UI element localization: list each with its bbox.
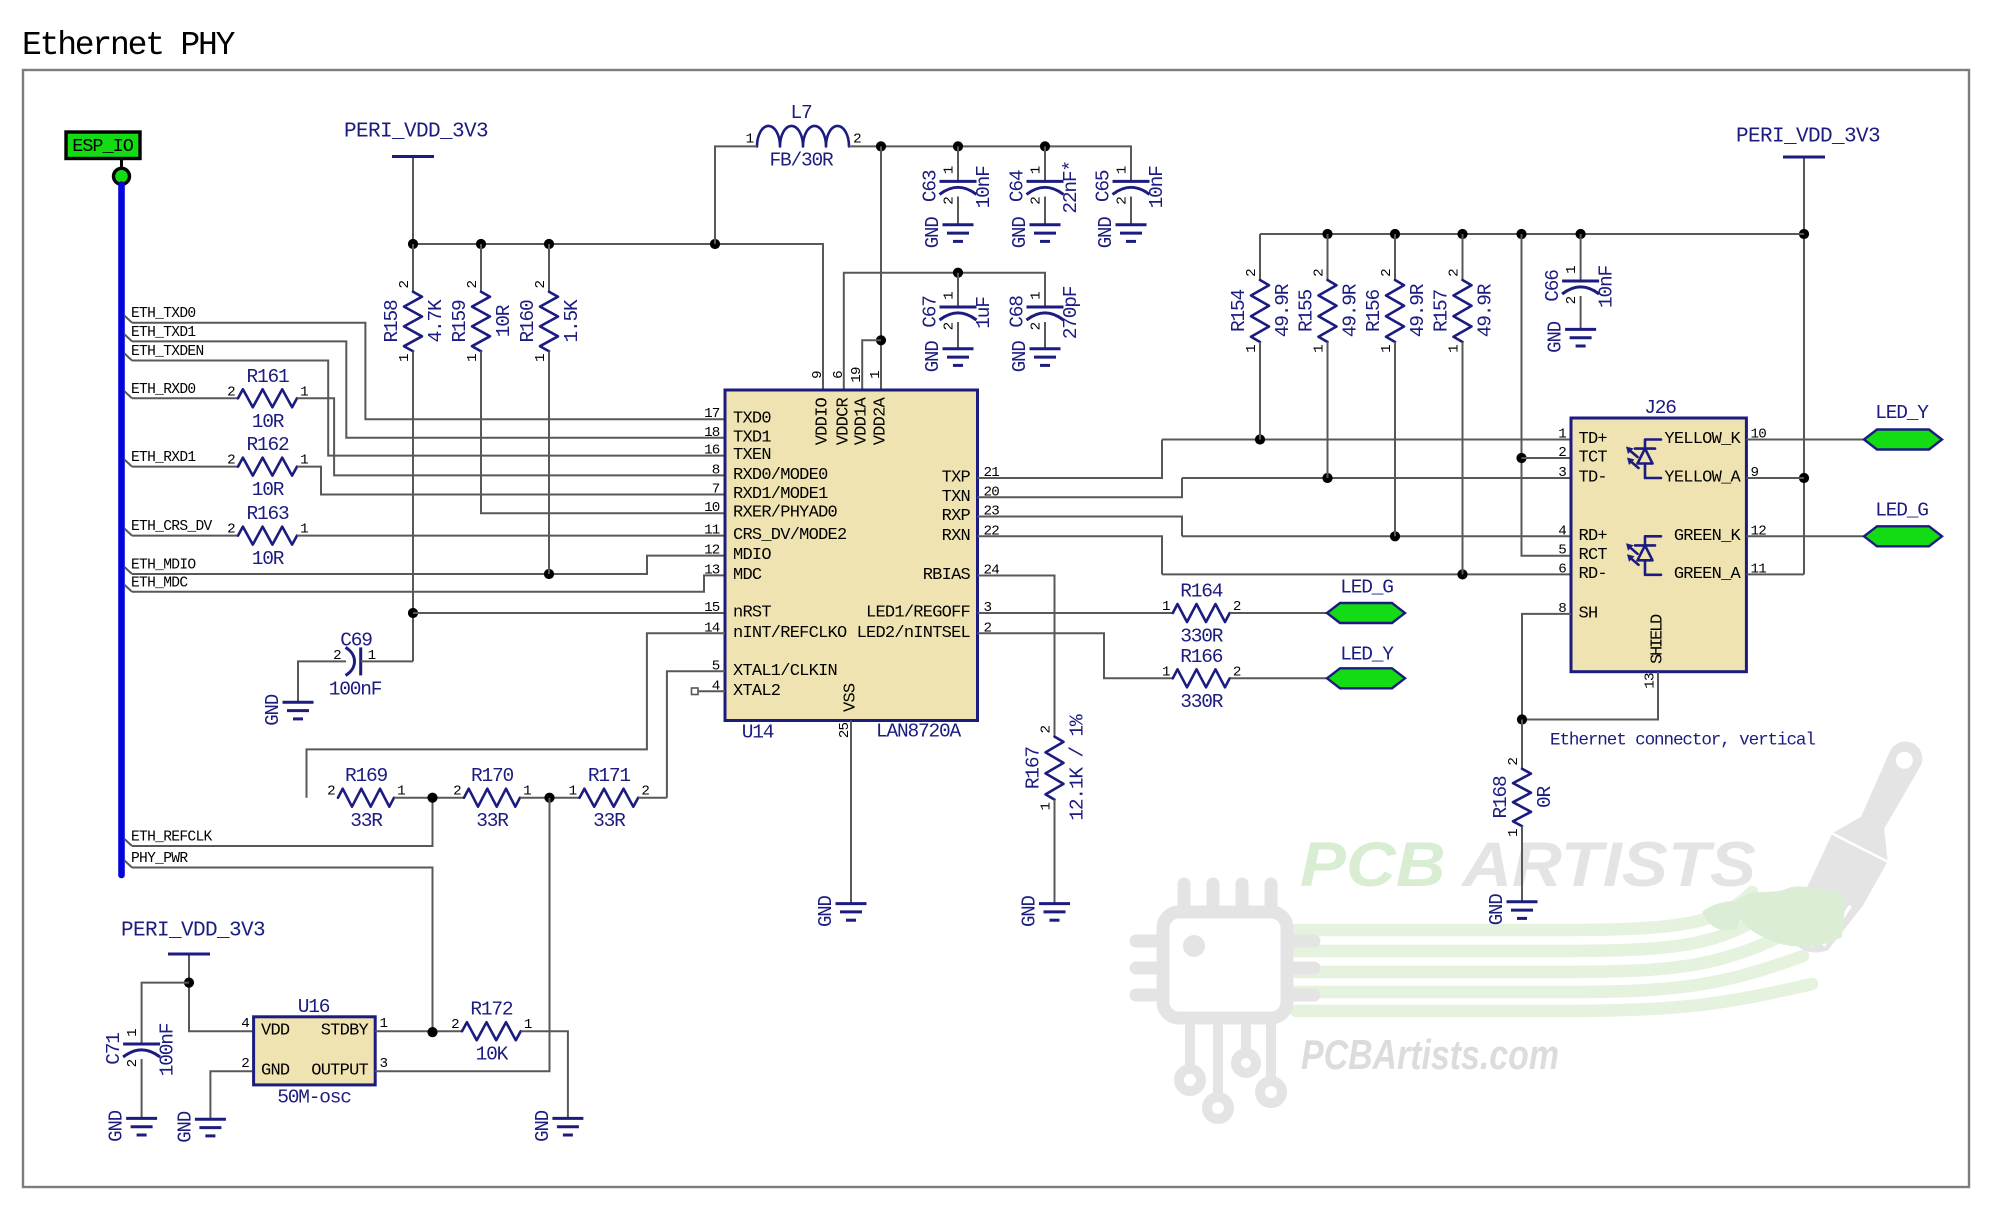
resistor R171 (33R)	[569, 765, 650, 832]
net label ETH_MDIO	[125, 558, 197, 575]
port ESP_IO	[66, 132, 140, 184]
ground	[1545, 321, 1597, 353]
svg-text:10nF: 10nF	[1146, 166, 1168, 209]
wire ETH_TXDEN	[132, 361, 725, 456]
wire LED2 wire	[978, 633, 1173, 678]
svg-text:ETH_RXD0: ETH_RXD0	[131, 382, 195, 398]
net label ETH_REFCLK	[125, 830, 213, 847]
net flag LED_Y	[1327, 644, 1405, 689]
svg-text:LED2/nINTSEL: LED2/nINTSEL	[857, 624, 971, 643]
svg-text:C65: C65	[1093, 170, 1115, 202]
resistor R158 (4.7K)	[381, 281, 447, 363]
net flag LED_G	[1864, 500, 1942, 547]
svg-text:10R: 10R	[252, 479, 285, 501]
junction at 1462.5,234	[1457, 229, 1467, 239]
svg-text:15: 15	[704, 600, 720, 616]
svg-text:RCT: RCT	[1579, 546, 1608, 565]
svg-text:1: 1	[125, 1029, 141, 1037]
svg-text:ETH_TXDEN: ETH_TXDEN	[131, 344, 204, 360]
svg-text:PHY_PWR: PHY_PWR	[131, 851, 188, 867]
wire TD- row	[1182, 477, 1571, 479]
svg-text:1: 1	[465, 354, 481, 362]
svg-text:1: 1	[942, 166, 958, 174]
svg-text:1uF: 1uF	[973, 297, 995, 329]
svg-text:7: 7	[712, 482, 720, 498]
svg-text:GND: GND	[106, 1110, 128, 1142]
LED yellow inside J26	[1626, 440, 1661, 479]
net label ETH_RXD1	[125, 450, 197, 467]
svg-text:17: 17	[704, 406, 720, 422]
svg-text:LED_Y: LED_Y	[1340, 644, 1394, 666]
svg-text:RBIAS: RBIAS	[923, 566, 971, 585]
svg-text:GREEN_A: GREEN_A	[1674, 565, 1742, 584]
power symbol PERI_VDD_3V3	[121, 920, 265, 955]
junction at 1327.5,478	[1322, 473, 1332, 483]
svg-text:2: 2	[1564, 296, 1580, 304]
wire 3V3 bus	[413, 244, 823, 390]
resistor R161 (10R)	[227, 366, 308, 433]
svg-text:ETH_MDIO: ETH_MDIO	[131, 558, 196, 574]
wire ETH_RXD0 b	[297, 398, 725, 475]
junction at 189,982.6	[184, 978, 194, 988]
wire R156 top	[1394, 234, 1396, 280]
svg-text:1: 1	[1379, 345, 1395, 353]
resistor R162 (10R)	[227, 434, 308, 501]
capacitor C65 (10nF)	[1093, 166, 1169, 209]
svg-text:J26: J26	[1644, 397, 1676, 419]
wire R155 bottom	[1327, 342, 1329, 478]
resistor R170 (33R)	[453, 765, 531, 832]
svg-text:RXD0/MODE0: RXD0/MODE0	[733, 466, 828, 485]
wire R164 to flag	[1230, 612, 1327, 614]
svg-text:2: 2	[465, 281, 481, 289]
svg-text:OUTPUT: OUTPUT	[311, 1062, 368, 1081]
svg-text:1: 1	[1564, 266, 1580, 274]
svg-text:50M-osc: 50M-osc	[277, 1087, 351, 1109]
svg-text:R154: R154	[1228, 290, 1250, 333]
resistor R154 (49.9R)	[1228, 269, 1294, 353]
svg-text:C66: C66	[1542, 270, 1564, 302]
svg-text:LED_G: LED_G	[1340, 577, 1393, 599]
svg-text:R155: R155	[1296, 290, 1318, 333]
wire SH	[1522, 614, 1571, 720]
svg-text:U14: U14	[742, 722, 774, 744]
wire C68 pin2	[1044, 322, 1046, 348]
svg-text:LED_G: LED_G	[1875, 500, 1928, 522]
svg-text:330R: 330R	[1180, 691, 1224, 713]
power symbol PERI_VDD_3V3	[1736, 126, 1880, 158]
svg-text:nRST: nRST	[733, 604, 771, 623]
svg-text:VSS: VSS	[842, 683, 861, 712]
svg-text:330R: 330R	[1180, 626, 1224, 648]
svg-text:ETH_REFCLK: ETH_REFCLK	[131, 830, 213, 846]
svg-text:2: 2	[451, 1017, 459, 1033]
wire L7 in	[715, 146, 757, 244]
watermark PCB ARTISTS logo	[1136, 729, 1941, 1119]
junction at 715,244	[710, 239, 720, 249]
wire U16 gnd wire	[210, 1071, 253, 1118]
resistor R168 (0R)	[1490, 758, 1556, 837]
resistor R164 (330R)	[1162, 581, 1241, 648]
svg-text:18: 18	[704, 425, 720, 441]
wire L7 out	[849, 146, 1131, 181]
svg-text:XTAL2: XTAL2	[733, 682, 780, 701]
wire R168 top	[1521, 720, 1523, 769]
svg-text:33R: 33R	[476, 810, 509, 832]
wire C71 pin2	[141, 1059, 143, 1118]
net label ETH_MDC	[125, 575, 189, 592]
svg-text:C64: C64	[1007, 170, 1029, 202]
ground	[532, 1110, 584, 1142]
inductor L7 (FB/30R)	[746, 102, 862, 172]
svg-text:LED1/REGOFF: LED1/REGOFF	[866, 604, 970, 623]
svg-text:33R: 33R	[350, 810, 383, 832]
wire R169-R170	[394, 797, 464, 799]
connector J26	[1558, 397, 1766, 689]
junction at 1395,234	[1390, 229, 1400, 239]
junction at 549,574	[544, 569, 554, 579]
svg-text:GND: GND	[922, 341, 944, 373]
wire TCT rail	[1522, 234, 1572, 556]
svg-text:1.5K: 1.5K	[561, 299, 583, 343]
wire C64 pin2	[1044, 197, 1046, 225]
wire R172 gnd wire	[521, 1031, 568, 1117]
svg-text:2: 2	[1447, 269, 1463, 277]
junction at 1462.5,574.4	[1457, 569, 1467, 579]
wire RD- row	[1162, 573, 1571, 575]
wire right 3V3 bus	[1260, 233, 1804, 235]
wire nINT to R169	[307, 633, 726, 797]
power symbol PERI_VDD_3V3	[344, 121, 488, 157]
capacitor C68 (270pF)	[1007, 286, 1083, 339]
junction at 1580.6,234	[1576, 229, 1586, 239]
svg-text:YELLOW_A: YELLOW_A	[1664, 469, 1741, 488]
svg-text:ETH_MDC: ETH_MDC	[131, 575, 188, 591]
svg-text:1: 1	[397, 354, 413, 362]
wire RD+ row	[1182, 535, 1571, 537]
svg-text:1: 1	[1244, 345, 1260, 353]
svg-text:3: 3	[380, 1056, 388, 1072]
junction at 958,272.7	[953, 268, 963, 278]
svg-text:GND: GND	[815, 895, 837, 927]
svg-text:GND: GND	[261, 1062, 290, 1081]
svg-text:R156: R156	[1363, 290, 1385, 333]
svg-text:LAN8720A: LAN8720A	[876, 721, 962, 743]
ground	[922, 341, 974, 373]
net label ETH_CRS_DV	[125, 519, 213, 536]
svg-text:1: 1	[1162, 664, 1170, 680]
wire PHY_PWR	[132, 868, 433, 1033]
svg-text:ETH_TXD0: ETH_TXD0	[131, 306, 195, 322]
svg-text:33R: 33R	[593, 810, 626, 832]
ground	[1009, 217, 1061, 249]
svg-text:PCB ARTISTS: PCB ARTISTS	[1300, 830, 1756, 900]
net flag LED_Y	[1864, 402, 1942, 450]
net flag LED_G	[1327, 577, 1405, 624]
wire R157 top	[1462, 234, 1464, 280]
svg-text:2: 2	[1379, 269, 1395, 277]
ground	[106, 1110, 158, 1142]
svg-text:10K: 10K	[476, 1044, 509, 1066]
svg-text:6: 6	[1558, 561, 1566, 577]
resistor R172 (10K)	[451, 999, 532, 1066]
svg-text:GND: GND	[1545, 321, 1567, 353]
svg-text:R170: R170	[471, 765, 514, 787]
svg-text:49.9R: 49.9R	[1272, 283, 1294, 337]
junction at 413,244	[408, 239, 418, 249]
svg-text:TXD0: TXD0	[733, 410, 771, 429]
svg-text:SH: SH	[1579, 604, 1598, 623]
svg-text:GND: GND	[922, 217, 944, 249]
svg-text:PERI_VDD_3V3: PERI_VDD_3V3	[1736, 126, 1880, 149]
wire YELLOW_K out	[1746, 439, 1864, 441]
svg-text:ETH_CRS_DV: ETH_CRS_DV	[131, 519, 213, 535]
resistor R163 (10R)	[227, 503, 308, 570]
svg-text:RXP: RXP	[942, 507, 971, 526]
junction at 549.5,797.7	[544, 793, 554, 803]
svg-text:2: 2	[1506, 758, 1522, 766]
svg-text:TXEN: TXEN	[733, 446, 771, 465]
svg-text:1: 1	[1029, 166, 1045, 174]
svg-text:R168: R168	[1490, 776, 1512, 819]
ground	[922, 217, 974, 249]
svg-text:1: 1	[1506, 829, 1522, 837]
wire TD+ row	[1162, 439, 1571, 441]
svg-text:R159: R159	[449, 300, 471, 343]
wire ETH_TXD0	[132, 323, 725, 420]
svg-text:100nF: 100nF	[157, 1023, 179, 1076]
svg-text:2: 2	[227, 384, 235, 400]
svg-text:1: 1	[1162, 599, 1170, 615]
svg-text:2: 2	[1029, 322, 1045, 330]
wire ETH_MDC	[132, 575, 725, 591]
svg-text:VDDCR: VDDCR	[834, 397, 853, 445]
svg-text:ETH_TXD1: ETH_TXD1	[131, 325, 196, 341]
svg-text:TXP: TXP	[942, 469, 971, 488]
wire YELLOW_A out	[1746, 477, 1804, 479]
junction at 1804,478	[1799, 473, 1809, 483]
svg-text:12.1K / 1%: 12.1K / 1%	[1067, 714, 1089, 821]
junction at 1521.5,234	[1516, 229, 1526, 239]
wire ETH_TXD1	[132, 341, 725, 437]
wire nRST row	[413, 612, 725, 614]
svg-text:10R: 10R	[252, 548, 285, 570]
svg-text:2: 2	[533, 281, 549, 289]
wire R166 to flag	[1230, 677, 1327, 679]
svg-text:49.9R: 49.9R	[1340, 283, 1362, 337]
svg-text:2: 2	[1115, 197, 1131, 205]
svg-text:1: 1	[1558, 427, 1566, 443]
svg-text:1: 1	[1029, 292, 1045, 300]
junction at 1045,146.4	[1040, 141, 1050, 151]
svg-text:C67: C67	[920, 296, 942, 328]
svg-text:GND: GND	[262, 694, 284, 726]
wire VDDCR col	[844, 273, 1045, 390]
junction at 881,340.3	[876, 335, 886, 345]
svg-text:RD+: RD+	[1579, 527, 1608, 546]
svg-text:R167: R167	[1023, 747, 1045, 790]
svg-text:TXN: TXN	[942, 488, 970, 507]
svg-text:PERI_VDD_3V3: PERI_VDD_3V3	[344, 121, 488, 144]
svg-text:4: 4	[1558, 523, 1566, 539]
svg-text:1: 1	[569, 784, 577, 800]
svg-text:R158: R158	[381, 300, 403, 343]
wire VSS	[850, 721, 852, 903]
net label PHY_PWR	[125, 851, 189, 868]
svg-text:4: 4	[241, 1016, 249, 1032]
svg-text:CRS_DV/MODE2: CRS_DV/MODE2	[733, 526, 846, 545]
junction at 1521.5,458	[1516, 453, 1526, 463]
svg-text:R163: R163	[246, 503, 289, 525]
svg-text:RXER/PHYAD0: RXER/PHYAD0	[733, 504, 838, 523]
svg-text:2: 2	[1029, 197, 1045, 205]
wire R158 col	[412, 244, 414, 292]
svg-text:22nF*: 22nF*	[1060, 161, 1082, 214]
junction at 432.5,1032.1	[427, 1027, 437, 1037]
junction at 1260,439.5	[1255, 434, 1265, 444]
svg-text:10R: 10R	[493, 304, 515, 337]
svg-text:0R: 0R	[1534, 785, 1556, 808]
svg-text:GND: GND	[532, 1110, 554, 1142]
wire TXP	[978, 440, 1163, 479]
svg-text:19: 19	[849, 367, 865, 383]
svg-text:ESP_IO: ESP_IO	[72, 136, 134, 157]
svg-text:4.7K: 4.7K	[425, 299, 447, 343]
wire C63 pin1	[957, 146, 959, 181]
svg-text:VDD2A: VDD2A	[872, 396, 891, 445]
svg-text:VDD1A: VDD1A	[853, 396, 872, 445]
wire TXN	[978, 478, 1183, 497]
svg-text:2: 2	[942, 322, 958, 330]
svg-text:L7: L7	[790, 102, 812, 124]
svg-text:100nF: 100nF	[329, 679, 382, 701]
capacitor C66 (10nF)	[1542, 266, 1618, 309]
wire R167 gnd	[1054, 800, 1056, 903]
wire R160 col	[548, 244, 550, 292]
net label ETH_RXD0	[125, 382, 196, 399]
junction at 413,613	[408, 608, 418, 618]
svg-text:C68: C68	[1007, 296, 1029, 328]
svg-text:GND: GND	[1486, 894, 1508, 926]
wire nRST col	[412, 351, 414, 661]
resistor R156 (49.9R)	[1363, 269, 1429, 353]
junction at 881,146.4	[876, 141, 886, 151]
svg-text:GND: GND	[1019, 895, 1041, 927]
svg-text:11: 11	[704, 523, 720, 539]
wire R155 top	[1327, 234, 1329, 280]
svg-text:49.9R: 49.9R	[1475, 283, 1497, 337]
svg-text:MDC: MDC	[733, 566, 762, 585]
svg-text:2: 2	[241, 1056, 249, 1072]
svg-text:GND: GND	[1009, 217, 1031, 249]
net label ETH_TXDEN	[125, 344, 204, 361]
ground	[1095, 217, 1147, 249]
wire PERI_VDD_3V3 drop	[412, 158, 414, 244]
wire VDD2A col	[880, 146, 882, 390]
capacitor C69 (100nF)	[329, 630, 382, 701]
wire C66 pin1	[1580, 234, 1582, 281]
svg-text:STDBY: STDBY	[321, 1022, 369, 1041]
svg-text:5: 5	[1558, 543, 1566, 559]
svg-text:Ethernet PHY: Ethernet PHY	[22, 27, 236, 64]
svg-text:2: 2	[397, 281, 413, 289]
svg-text:ETH_RXD1: ETH_RXD1	[131, 450, 196, 466]
ground	[815, 895, 867, 927]
wire C65 pin2	[1130, 197, 1132, 225]
svg-text:RXN: RXN	[942, 527, 970, 546]
wire ETH_CRS_DV a	[132, 535, 238, 537]
wire ETH_CRS_DV b	[297, 535, 725, 537]
svg-text:2: 2	[1558, 445, 1566, 461]
capacitor C67 (1uF)	[920, 292, 996, 331]
svg-text:LED_Y: LED_Y	[1875, 402, 1929, 424]
svg-text:13: 13	[704, 562, 720, 578]
wire C69 pin1	[361, 660, 413, 662]
svg-text:1: 1	[380, 1016, 388, 1032]
ground	[262, 694, 314, 726]
svg-text:TXD1: TXD1	[733, 428, 771, 447]
svg-text:2: 2	[327, 784, 335, 800]
resistor R157 (49.9R)	[1431, 269, 1497, 353]
wire GREEN_K out	[1746, 535, 1864, 537]
svg-text:3: 3	[1558, 465, 1566, 481]
svg-text:2: 2	[227, 522, 235, 538]
wire R170-R171	[520, 797, 580, 799]
wire VDD1A jog	[862, 340, 881, 390]
wire XTAL2 stub	[698, 690, 725, 692]
svg-text:2: 2	[125, 1059, 141, 1067]
wire STDBY wire	[375, 1030, 462, 1032]
wire C71 link	[142, 983, 189, 1044]
svg-text:GND: GND	[1009, 341, 1031, 373]
junction at 1522,719.5	[1517, 714, 1527, 724]
wire C66 pin2	[1580, 296, 1582, 329]
svg-text:GREEN_K: GREEN_K	[1674, 527, 1742, 546]
junction at 432.5,797.7	[427, 793, 437, 803]
svg-text:RD-: RD-	[1579, 565, 1607, 584]
wire R156 bottom	[1394, 342, 1396, 536]
svg-text:TD+: TD+	[1579, 430, 1608, 449]
svg-text:12: 12	[704, 543, 720, 559]
svg-text:nINT/REFCLKO: nINT/REFCLKO	[733, 624, 847, 643]
wire ETH_MDIO	[132, 556, 725, 574]
svg-text:1: 1	[1312, 345, 1328, 353]
svg-text:2: 2	[227, 453, 235, 469]
junction at 958,146.4	[953, 141, 963, 151]
svg-text:R161: R161	[246, 366, 289, 388]
svg-text:MDIO: MDIO	[733, 546, 771, 565]
svg-text:2: 2	[1312, 269, 1328, 277]
net label ETH_TXD1	[125, 325, 197, 342]
svg-text:6: 6	[831, 371, 847, 379]
IC U14 LAN8720A	[704, 367, 999, 743]
resistor R166 (330R)	[1162, 646, 1241, 713]
svg-text:RXD1/MODE1: RXD1/MODE1	[733, 485, 828, 504]
LED green inside J26	[1626, 536, 1661, 575]
svg-text:GND: GND	[1095, 217, 1117, 249]
svg-text:GND: GND	[174, 1111, 196, 1143]
no-connect XTAL2	[692, 688, 726, 695]
resistor R159 (10R)	[449, 281, 515, 363]
svg-text:10R: 10R	[252, 411, 285, 433]
wire LED1 wire	[978, 612, 1173, 614]
svg-text:TCT: TCT	[1579, 449, 1608, 468]
svg-text:U16: U16	[298, 996, 330, 1018]
IC U16 50M-osc	[241, 996, 387, 1109]
wire RXER link	[481, 351, 725, 513]
junction at 1395,536.3	[1390, 531, 1400, 541]
wire ETH_RXD0 a	[132, 397, 238, 399]
